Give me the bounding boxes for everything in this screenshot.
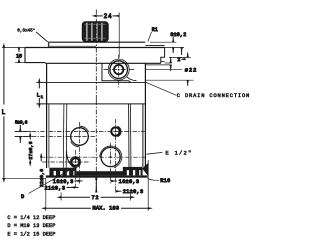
dimension 22+-0,6	[39, 157, 45, 187]
dimension L1	[37, 82, 44, 104]
chamfer label 0,8x45	[17, 28, 47, 42]
svg-text:L: L	[37, 92, 40, 99]
D label leader	[21, 170, 70, 200]
svg-text:22±0,6: 22±0,6	[39, 169, 45, 187]
svg-text:27±0,6: 27±0,6	[28, 141, 34, 159]
R16 label	[148, 178, 171, 184]
mounting flange	[2, 48, 165, 66]
base bar bottom face	[46, 175, 148, 177]
middle seal band	[77, 171, 124, 175]
left foot pad	[49, 168, 76, 176]
splined shaft	[82, 22, 108, 42]
port circle E (big right, threaded)	[41, 143, 146, 184]
svg-text:C DRAIN CONNECTION: C DRAIN CONNECTION	[177, 93, 250, 99]
dimension 16 flange	[15, 48, 25, 63]
dimension 6+-0,2	[150, 32, 186, 55]
svg-text:2: 2	[177, 57, 180, 63]
svg-text:ø22: ø22	[185, 68, 197, 74]
svg-text:L: L	[2, 109, 6, 116]
hole D (small left with ring)	[42, 150, 90, 189]
dimension 24	[96, 13, 119, 58]
svg-text:E 1/2": E 1/2"	[165, 149, 191, 156]
port circle C (big left, threaded)	[15, 122, 96, 184]
svg-text:24: 24	[104, 13, 112, 20]
dimension dia 22	[146, 53, 196, 86]
svg-text:5±0,6: 5±0,6	[15, 120, 28, 126]
bottom dim row2 21+-0,3 right	[116, 189, 143, 195]
svg-text:D = M10 13 DEEP: D = M10 13 DEEP	[7, 223, 55, 229]
E 1/2 label	[147, 149, 192, 156]
top plate	[49, 42, 146, 47]
hole D (small right with ring)	[15, 119, 145, 193]
dimension 72	[61, 193, 130, 201]
svg-text:72: 72	[92, 195, 99, 201]
centerline end double arrow	[95, 180, 97, 193]
svg-text:R1: R1	[152, 27, 158, 33]
svg-text:R16: R16	[160, 178, 170, 184]
shaft centerline	[95, 10, 97, 101]
dimension 5+-0,6	[15, 120, 32, 143]
svg-text:C = 1/4 12 DEEP: C = 1/4 12 DEEP	[7, 215, 55, 221]
svg-text:16±0,3: 16±0,3	[53, 179, 74, 185]
svg-text:E = 1/2 15 DEEP: E = 1/2 15 DEEP	[7, 232, 55, 238]
svg-text:16±0,3: 16±0,3	[119, 179, 140, 185]
drain port circles	[104, 55, 137, 88]
drain port boss	[102, 63, 131, 82]
svg-text:MAX. 103: MAX. 103	[93, 205, 120, 211]
svg-text:0,8x45°: 0,8x45°	[17, 28, 35, 33]
dimension 2 step	[146, 57, 185, 71]
svg-text:21±0,3: 21±0,3	[45, 185, 66, 191]
svg-text:16: 16	[16, 54, 22, 60]
centerline body	[95, 100, 97, 191]
dimension MAX. 103	[46, 160, 148, 211]
right thin plate top	[145, 45, 164, 47]
dimension L	[2, 48, 46, 179]
svg-text:D: D	[21, 194, 24, 200]
R1 label	[148, 27, 158, 42]
svg-text:1: 1	[41, 96, 44, 100]
C drain connection label	[146, 82, 250, 99]
bottom dim row2 21+-0,3 left	[45, 185, 79, 191]
svg-text:21±0,3: 21±0,3	[123, 189, 144, 195]
bottom dim row1 16+-0,3 right	[111, 179, 139, 185]
housing body outline	[36, 63, 145, 168]
dimension 27+-0,6	[28, 137, 34, 163]
right foot pad	[123, 164, 148, 176]
bottom dim row1 16+-0,3 left	[53, 179, 83, 185]
